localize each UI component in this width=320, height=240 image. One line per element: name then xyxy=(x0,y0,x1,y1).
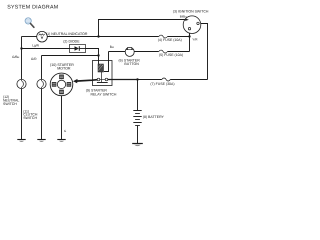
wire diode line Lg/R xyxy=(22,48,70,50)
svg-text:SWITCH: SWITCH xyxy=(23,116,37,120)
wire ignition right xyxy=(198,24,208,80)
wire fuse5 to ignition drop xyxy=(168,51,190,53)
diode D1 box xyxy=(70,45,86,53)
relay K9 plunger and contact bar xyxy=(97,72,108,83)
ground neutral switch xyxy=(17,140,25,143)
fuse F4 (10A) xyxy=(159,35,168,38)
node junction battery feed xyxy=(136,78,138,80)
node junction fuse4 ignition xyxy=(188,35,190,37)
wire battery to ground xyxy=(137,126,139,144)
wire neutral indicator line xyxy=(22,36,37,38)
svg-text:(4) FUSE (10A): (4) FUSE (10A) xyxy=(158,38,182,42)
node junction rail/diode line xyxy=(20,47,22,49)
wire indicator to fuse4 xyxy=(47,36,159,38)
diode D1 symbol xyxy=(70,46,86,51)
svg-text:Bl/Bu: Bl/Bu xyxy=(180,14,187,18)
relay K9 contact terminals xyxy=(97,78,100,81)
wire G/R line xyxy=(42,55,99,57)
wire battery drop xyxy=(137,80,139,111)
node junction G/R diode xyxy=(97,54,99,56)
fuse F5 (10A) xyxy=(159,50,168,53)
wire branch up to ignition xyxy=(99,20,185,37)
arrowhead at starter motor xyxy=(73,79,78,83)
svg-text:(3) IGNITION SWITCH: (3) IGNITION SWITCH xyxy=(173,10,209,14)
wire button to relay coil xyxy=(104,52,109,72)
switch SW12 neutral switch xyxy=(17,79,26,88)
relay K9 coil xyxy=(98,64,104,72)
svg-text:RELAY SWITCH: RELAY SWITCH xyxy=(91,93,117,97)
wire thick cable relay to motor xyxy=(76,80,138,82)
wire fuse7 to battery junction xyxy=(138,79,162,81)
svg-text:(5) FUSE (10A): (5) FUSE (10A) xyxy=(159,53,183,57)
switch SW3 ignition switch xyxy=(183,16,201,34)
svg-text:G/Bu: G/Bu xyxy=(12,55,19,59)
fuse F7 (30A) xyxy=(162,78,170,81)
svg-text:(1) NEUTRAL INDICATOR: (1) NEUTRAL INDICATOR xyxy=(46,32,88,36)
node junction indicator line branch xyxy=(97,35,99,37)
motor M10 starter motor xyxy=(50,73,73,96)
wire fuse4 to ignition drop xyxy=(168,36,190,38)
svg-text:Y/R: Y/R xyxy=(192,38,198,42)
svg-text:BUTTON: BUTTON xyxy=(124,62,139,66)
svg-text:(2) DIODE: (2) DIODE xyxy=(63,39,80,43)
svg-text:G/R: G/R xyxy=(31,57,37,61)
svg-text:(8) BATTERY: (8) BATTERY xyxy=(143,115,165,119)
wire neutral switch drop xyxy=(21,89,23,140)
relay K9 starter relay switch box xyxy=(93,61,113,86)
ground clutch switch xyxy=(37,140,45,143)
wire battery feed right xyxy=(170,79,207,81)
svg-text:Lg/R: Lg/R xyxy=(32,43,39,47)
wire motor ground drop xyxy=(61,96,63,140)
wire left rail G/Bu xyxy=(21,37,23,80)
wire button line left xyxy=(109,51,126,53)
svg-text:SWITCH: SWITCH xyxy=(3,102,17,106)
ground starter motor xyxy=(57,140,65,143)
svg-text:Bu: Bu xyxy=(110,45,114,49)
svg-text:MOTOR: MOTOR xyxy=(57,67,71,71)
wire clutch drop xyxy=(41,56,43,80)
ground battery xyxy=(132,144,143,147)
lamp L1 neutral indicator xyxy=(37,31,48,42)
battery B8 xyxy=(133,111,141,126)
wire ignition bottom drop xyxy=(189,30,191,52)
magnifier cursor xyxy=(25,18,34,28)
switch SW11 clutch switch xyxy=(37,79,46,88)
wire clutch switch drop xyxy=(41,89,43,140)
wire button line right xyxy=(134,51,159,53)
svg-text:(7) FUSE (30A): (7) FUSE (30A) xyxy=(150,82,174,86)
svg-text:SYSTEM DIAGRAM: SYSTEM DIAGRAM xyxy=(7,4,58,10)
wire diode out to relay coil xyxy=(86,49,99,65)
pushbutton SW6 starter button xyxy=(125,47,134,56)
